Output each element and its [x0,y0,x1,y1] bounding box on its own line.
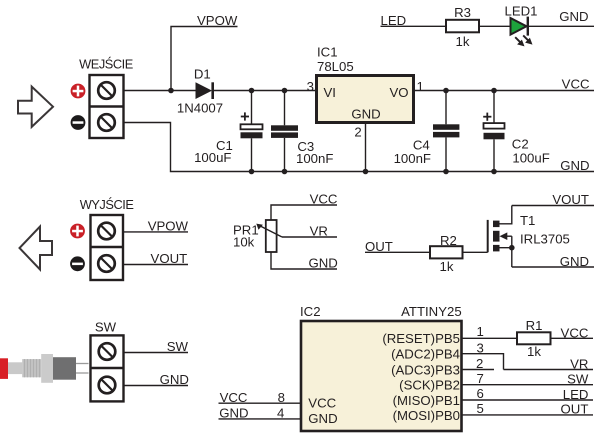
node IC1 GND bottom [363,169,369,175]
svg-text:VOUT: VOUT [552,192,589,207]
capacitor C1 (electrolytic) [241,91,263,172]
wire VO to VCC rail [414,90,595,92]
svg-text:100nF: 100nF [296,151,333,166]
LED LED1 [511,17,533,47]
svg-text:VCC: VCC [561,325,589,340]
node C3 bottom [282,169,288,175]
svg-text:(ADC2)PB4: (ADC2)PB4 [391,347,460,362]
wire D1 to IC1 [214,90,316,92]
minus marker (output) [70,256,85,271]
wire R3 to LED1 [479,25,510,27]
svg-text:GND: GND [160,372,189,387]
wire SW [124,352,189,354]
svg-text:1: 1 [477,324,484,339]
svg-text:VR: VR [310,223,328,238]
terminal block SW [91,335,124,401]
node C3 top [282,88,288,94]
wire VPOW tap up and right [171,27,238,91]
pushbutton photo: body [53,357,76,380]
wire OUT to R2 [365,251,430,253]
svg-text:IRL3705: IRL3705 [520,232,570,247]
svg-text:SW: SW [95,319,117,334]
svg-text:GND: GND [559,9,588,24]
svg-text:GND: GND [308,411,337,426]
terminal block WEJŚCIE [90,75,124,138]
pushbutton photo: threaded barrel [22,359,41,377]
svg-text:VPOW: VPOW [148,218,189,233]
svg-text:LED: LED [563,387,589,402]
node C1 bottom [249,169,255,175]
wire pin 7 to SW [462,384,594,386]
svg-text:T1: T1 [520,213,535,228]
wire VCC to pin 8 [219,402,302,404]
wire drain to VOUT [512,205,594,207]
wire + terminal to D1 [124,90,197,92]
svg-text:ATTINY25: ATTINY25 [401,304,462,319]
svg-text:VR: VR [570,356,588,371]
wire GND to pin 4 [219,418,302,420]
wire R1 to VCC [551,337,594,339]
node T1 source [509,245,515,251]
terminal block WYJŚCIE [91,215,124,280]
svg-text:(ADC3)PB3: (ADC3)PB3 [391,362,460,377]
svg-text:D1: D1 [194,66,211,81]
regulator IC1 box [317,76,414,123]
svg-text:1k: 1k [440,259,454,274]
svg-text:3: 3 [307,79,314,94]
wire PR1 bottom to GND [271,252,337,269]
wire R2 to gate [463,251,488,253]
wire pin 2 stub [462,369,495,371]
node VPOW tap [168,88,174,94]
svg-text:R1: R1 [526,318,543,333]
wire VCC to PR1 top [271,205,337,220]
svg-text:VI: VI [324,85,336,100]
svg-text:VO: VO [389,85,408,100]
svg-text:VCC: VCC [308,396,336,411]
svg-text:100uF: 100uF [512,150,549,165]
svg-text:(RESET)PB5: (RESET)PB5 [382,331,460,346]
wire VR [504,369,594,371]
capacitor C2 (electrolytic) [483,91,504,172]
svg-text:VPOW: VPOW [197,13,238,28]
svg-text:1k: 1k [456,34,470,49]
svg-text:VCC: VCC [562,76,590,91]
wire GND (SW) [124,385,189,387]
wire LED1 to GND [529,25,594,27]
node C2 bottom [491,169,497,175]
wire pin 6 to LED [462,399,594,401]
svg-text:IC1: IC1 [317,45,338,60]
wire VPOW (output) [123,231,188,233]
svg-text:VCC: VCC [310,192,338,207]
svg-text:SW: SW [167,339,189,354]
svg-text:6: 6 [477,386,484,401]
plus marker (output) [70,224,85,239]
svg-text:100nF: 100nF [394,151,431,166]
wire VR [282,236,337,238]
svg-text:5: 5 [477,401,484,416]
pushbutton photo: shaft [8,362,22,374]
svg-text:3: 3 [477,341,484,356]
wire pin 1 to R1 [462,337,518,339]
svg-text:LED1: LED1 [505,4,538,19]
svg-text:R3: R3 [454,5,471,20]
capacitor C3 (ceramic) [271,91,298,172]
svg-text:GND: GND [560,158,589,173]
diode D1 [196,82,213,99]
svg-text:GND: GND [560,254,589,269]
resistor R1 [517,332,551,344]
wire LED row left [381,25,447,27]
node C4 bottom [443,169,449,175]
svg-text:GND: GND [351,107,380,122]
svg-text:10k: 10k [233,234,255,249]
node C4 top [443,88,449,94]
svg-text:1: 1 [417,79,424,94]
minus marker (input) [71,115,86,130]
svg-text:IC2: IC2 [300,304,321,319]
potentiometer PR1 wiper arrow [256,224,282,237]
svg-text:(MISO)PB1: (MISO)PB1 [393,393,460,408]
svg-text:VOUT: VOUT [151,251,188,266]
svg-text:(MOSI)PB0: (MOSI)PB0 [393,408,460,423]
svg-text:SW: SW [567,372,589,387]
svg-text:1N4007: 1N4007 [177,100,223,115]
svg-text:1k: 1k [527,344,541,359]
svg-text:GND: GND [309,255,338,270]
plus marker (input) [71,84,86,99]
svg-text:2: 2 [476,356,483,371]
pushbutton photo: collar [41,354,53,383]
resistor R3 [446,20,479,33]
svg-text:R2: R2 [440,233,457,248]
wire IC1 GND pin down [365,123,367,172]
svg-text:7: 7 [477,371,484,386]
resistor R2 [430,246,463,258]
svg-text:2: 2 [354,125,361,140]
svg-text:100uF: 100uF [194,150,231,165]
node C1 top [249,88,255,94]
svg-text:(SCK)PB2: (SCK)PB2 [399,378,460,393]
svg-text:WEJŚCIE: WEJŚCIE [79,56,133,71]
wire VOUT (output) [123,264,188,266]
microcontroller IC2 box [301,321,462,431]
pushbutton photo: red cap [0,358,8,379]
node C2 top [491,88,497,94]
wire minus terminal to GND rail [124,123,595,172]
svg-text:OUT: OUT [561,402,589,417]
transistor T1 MOSFET [488,206,512,268]
wire pin 3 to VR [462,354,504,370]
input arrow (right-pointing) [18,87,53,127]
wire source to GND [512,266,594,268]
capacitor C4 (ceramic) [433,91,459,172]
svg-text:WYJŚCIE: WYJŚCIE [80,197,134,212]
svg-text:78L05: 78L05 [317,59,354,74]
pushbutton photo: leads [76,363,89,365]
potentiometer PR1 body [266,220,277,252]
wire pin 5 to OUT [462,414,594,416]
output arrow (left-pointing) [20,227,53,270]
